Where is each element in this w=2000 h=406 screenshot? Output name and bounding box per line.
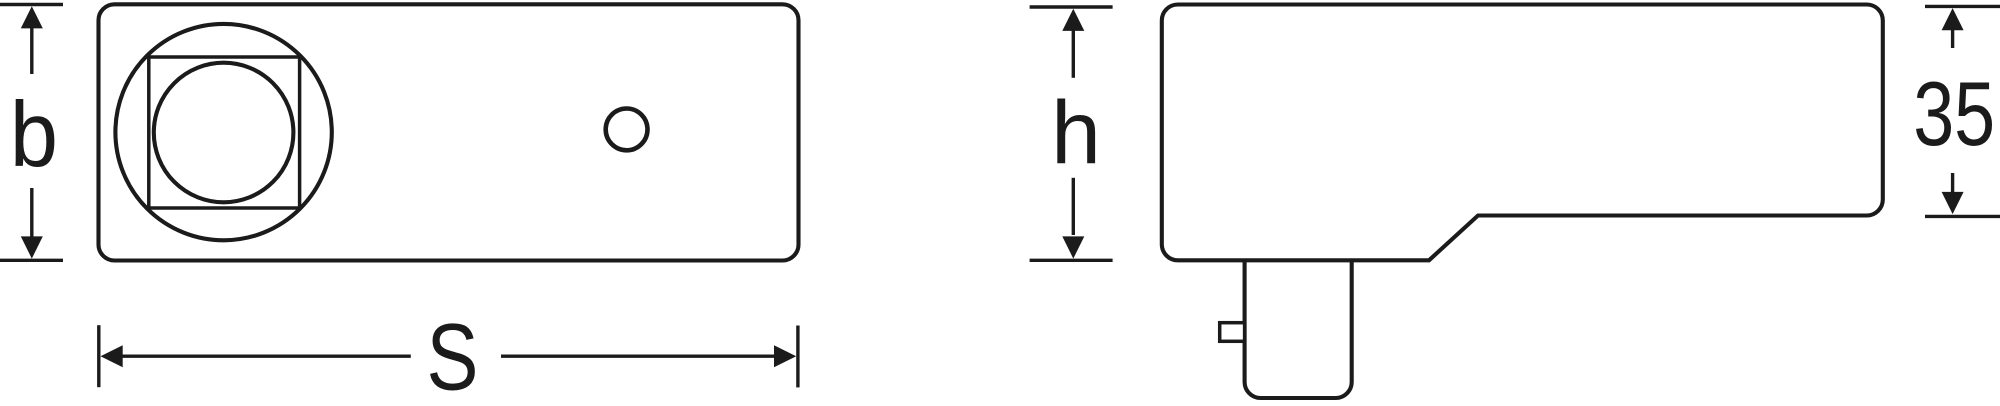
svg-text:35: 35 bbox=[1913, 63, 1995, 165]
svg-text:S: S bbox=[427, 304, 479, 406]
svg-text:h: h bbox=[1051, 82, 1101, 182]
svg-text:b: b bbox=[10, 84, 58, 188]
